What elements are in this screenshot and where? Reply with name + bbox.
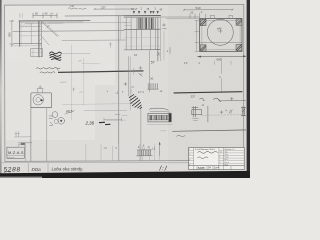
small dashes near beam top-left [115, 114, 120, 116]
view A left dim line [11, 21, 13, 46]
projection vertical x149.3 [148, 51, 150, 93]
svg-text:237: 237 [191, 95, 196, 99]
circle box inner circle [36, 98, 41, 103]
tick row y119.5 [104, 118, 122, 120]
tiny digit labels bottom [104, 148, 156, 151]
title block right col texts [225, 148, 235, 167]
line y22.8 upper [48, 22, 126, 24]
svg-text:2: 2 [220, 162, 221, 164]
cross marks below center [124, 83, 134, 88]
view A main vertical pair [38, 21, 40, 57]
line y18.7 D to E [161, 16, 200, 18]
scan edge left strip [0, 0, 2, 178]
fastener leader line [65, 111, 75, 115]
striped beam hatch accents [151, 116, 166, 120]
center vertical companion top [119, 16, 121, 41]
line y53.6 [62, 53, 91, 55]
member right bracket [241, 107, 246, 116]
fastener circle 1 [52, 112, 58, 118]
tick cluster left [15, 132, 20, 137]
beam handwriting label [150, 108, 169, 110]
stamp box [7, 147, 24, 158]
scan edge right soft line [246, 0, 247, 178]
svg-text:1a-4: 1a-4 [214, 167, 219, 170]
handwritten note mid-left [36, 67, 60, 73]
svg-text:M.Z.A.S: M.Z.A.S [8, 150, 24, 155]
right mid center line with break [220, 58, 222, 74]
circle box view [31, 93, 52, 108]
view D top dim arrows [133, 11, 158, 13]
dim slash tr-right [232, 9, 234, 11]
stamp top tab [18, 145, 24, 147]
title block rev col rows [189, 150, 194, 163]
title block scrawl row1 [198, 152, 218, 154]
plus above tab [39, 86, 42, 89]
view E top tabs [210, 15, 214, 18]
paper lighter patch top-left [5, 5, 115, 85]
striped beam dark cap [169, 114, 172, 122]
view D mid horizontal [124, 28, 160, 30]
fastener circle 2 [58, 118, 65, 125]
striped beam inner lines [148, 114, 171, 116]
bottom row sep 2 [47, 163, 49, 172]
svg-text:4: 4 [189, 159, 190, 161]
view E chord line [200, 42, 242, 44]
faint vertical x164 [163, 31, 165, 60]
paper lighter patch mid-left [5, 60, 95, 140]
plus mark [230, 97, 233, 100]
view D hatch dark accents [141, 18, 152, 29]
svg-text:ø6,5: ø6,5 [66, 109, 73, 113]
svg-text:1: 1 [189, 149, 190, 151]
line under cluster [137, 155, 153, 157]
vertical x130 low [129, 98, 131, 110]
title block mid col ticks [220, 151, 222, 163]
line above stamp [18, 142, 32, 144]
tick x131 y90 [130, 90, 132, 94]
view D bottom line [124, 49, 160, 51]
dim line 237 top center [95, 8, 137, 10]
circle box top tab [37, 89, 39, 93]
title block outer [189, 148, 245, 170]
svg-text:57: 57 [151, 60, 155, 64]
bottom row sep 1 [27, 163, 29, 172]
view D top dim digits [131, 8, 163, 12]
curl at left end [56, 68, 58, 72]
svg-text:2,36: 2,36 [85, 121, 95, 126]
svg-text:Blatt: Blatt [225, 163, 229, 166]
view E gusset TL [200, 19, 206, 26]
tiny marks center-left [61, 61, 83, 93]
title block right col rows [219, 150, 244, 163]
title block scrawl row2 [198, 157, 209, 159]
view D right cluster [163, 24, 167, 30]
diagonal member dark hatch [129, 95, 142, 109]
thick line y71.6 [59, 71, 143, 73]
digits above cluster [138, 145, 150, 149]
circle box dark dot [41, 99, 43, 101]
vertical x141 [140, 106, 142, 161]
member bracket ticks below [193, 118, 199, 120]
svg-text:Maßstab 1:1: Maßstab 1:1 [225, 148, 235, 151]
vertical x25.4 [24, 143, 26, 161]
title block strong line [189, 165, 245, 167]
faint line under beam [147, 124, 172, 126]
striped beam hatch [149, 116, 167, 120]
view E top dim ticks [190, 13, 206, 19]
svg-text:x40: x40 [70, 5, 75, 8]
view E gusset BL [200, 45, 206, 51]
vertical strokes cluster y83-89 [148, 84, 159, 90]
title block mid col lines [218, 148, 220, 170]
view A second diagonal [42, 36, 49, 45]
scan edge bottom band [0, 171, 250, 178]
view E outer rect [200, 19, 242, 52]
extension verticals bottom [86, 144, 160, 161]
handwritten note top center [68, 8, 86, 10]
faint vertical x71.5 [71, 45, 73, 120]
bottom center strokes cluster [137, 149, 151, 151]
circle box outer circle [33, 95, 43, 105]
long line y31 [13, 30, 124, 33]
svg-text:DDa: DDa [32, 167, 42, 172]
scan edge right strip [247, 0, 250, 178]
stamp inner line [7, 154, 24, 156]
svg-text:600: 600 [217, 58, 222, 62]
striped beam outer rect [148, 113, 171, 122]
view D top edge double [124, 15, 160, 17]
line y120 small [106, 119, 126, 121]
tall rect bottom h-line [15, 136, 31, 138]
view A inner horizontal [19, 35, 41, 37]
svg-text:5288: 5288 [198, 166, 205, 170]
view A dim cluster [33, 13, 57, 18]
view A brace tick [47, 25, 50, 28]
view A left dim ticks [10, 20, 15, 47]
view A bottom box marks [32, 49, 34, 57]
tiny marks row y90 center [107, 89, 164, 95]
view A third line [19, 26, 41, 28]
dim line top right [184, 9, 233, 11]
svg-text:9: 9 [220, 157, 221, 159]
svg-text:6: 6 [189, 164, 190, 166]
frame bottom second line [1, 161, 244, 164]
squiggle above y100 line [214, 98, 221, 102]
view A ticks above corner [19, 14, 21, 18]
line y92.4 thick right [174, 92, 242, 93]
view D faint mid [124, 36, 160, 38]
svg-text:3: 3 [189, 154, 190, 156]
tick x133.8 [133, 68, 135, 75]
member view left bracket [192, 107, 202, 118]
view E center mark [218, 29, 222, 33]
view A dark scribble [50, 52, 62, 60]
view A left vertical pair [18, 21, 20, 47]
marks right end [139, 67, 143, 75]
tall rect right vertical [46, 108, 48, 161]
dark blob above stamp [21, 143, 25, 145]
svg-text:Leba-ska stindy,: Leba-ska stindy, [52, 167, 84, 172]
center long vertical [118, 16, 120, 161]
member faint bottom line [202, 114, 242, 116]
view A diagonal brace [42, 22, 58, 37]
svg-text:290: 290 [8, 32, 12, 37]
beam label underline [150, 110, 171, 113]
title block rev col line [193, 148, 195, 170]
squiggle below line left [177, 135, 186, 137]
faint vertical x83.8 [83, 58, 85, 105]
svg-text:237: 237 [101, 5, 106, 9]
view E gusset BR [236, 44, 242, 50]
member slash marks [229, 110, 232, 113]
view E bottom dim line with arrows [198, 55, 247, 57]
short vertical x170 [169, 48, 171, 54]
paper background [0, 0, 250, 178]
tiny dims row y62 [184, 62, 201, 65]
svg-text:ø40: ø40 [217, 27, 222, 31]
svg-text:4 7 1: 4 7 1 [138, 90, 144, 94]
view D right vertical double [157, 18, 159, 61]
bottom-left stray mark [4, 171, 11, 174]
drawing frame [5, 4, 244, 161]
title block bottom band cells [197, 166, 231, 170]
line y100.6 right [219, 99, 250, 102]
x marks mid [140, 75, 153, 80]
view E inner lines [201, 19, 203, 52]
small ticks near center vertical [109, 43, 112, 48]
line y15.7 upper [65, 15, 161, 18]
svg-text:x-x-x-x-x: x-x-x-x-x [8, 157, 15, 159]
fastener circle 2 dot [60, 120, 62, 122]
member center plus [220, 111, 223, 114]
title block rev digits [189, 149, 190, 167]
view D left ticks [125, 21, 132, 23]
faint line y104 [62, 103, 135, 106]
svg-text:4.4.44 Hartman 30.4.5: 4.4.44 Hartman 30.4.5 [195, 148, 216, 151]
tall rect left vertical [30, 108, 32, 161]
svg-text:5288: 5288 [4, 167, 21, 174]
dark dash marks [100, 121, 105, 123]
squiggle below line [200, 98, 205, 101]
view E gusset TR [236, 19, 242, 26]
view A bottom double [14, 43, 42, 45]
view A bottom box [31, 49, 43, 57]
view A second top line [25, 22, 63, 24]
arrow tick right of cluster [159, 142, 161, 156]
tick right [247, 110, 249, 113]
paper grain overlay [0, 0, 250, 178]
dim slash left [94, 8, 96, 10]
fastener bracket marks [49, 116, 54, 126]
svg-text:≈: ≈ [219, 75, 221, 79]
scan bottom light sliver left [0, 177, 42, 178]
view A mid vertical [30, 23, 32, 43]
paper shade right column [168, 5, 246, 165]
line y40 center [62, 39, 126, 41]
svg-text:540: 540 [196, 6, 201, 10]
view E left ticks [195, 20, 200, 51]
view D faint line y46 [124, 45, 160, 47]
dim slash tr-left [183, 9, 185, 11]
diagonal member vertical pair [128, 57, 130, 97]
view E big circle [207, 19, 233, 45]
svg-text:14: 14 [220, 151, 222, 153]
long line y130.8 [173, 130, 250, 131]
member vertical x207.9 [207, 106, 209, 122]
view A top edge double [19, 20, 90, 22]
faint h-line y63.3 [82, 62, 100, 64]
view A hatch band [39, 24, 41, 52]
faint line y110.4 [84, 109, 127, 112]
view A hatch top-left [20, 21, 33, 26]
view D columns [126, 18, 155, 50]
dashes left of line [160, 130, 166, 132]
scale label 1:1 handwritten [160, 166, 167, 171]
fastener circle 3 [54, 119, 58, 123]
view D hatch band [137, 18, 155, 29]
dim slash right [136, 8, 138, 10]
